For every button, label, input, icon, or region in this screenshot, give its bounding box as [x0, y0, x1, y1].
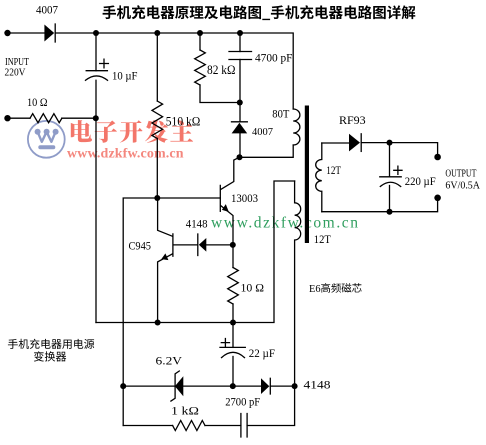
label converter line1 — [8, 339, 94, 349]
wire — [8, 32, 45, 34]
diode D3 4148 — [197, 234, 199, 256]
svg-text:220V: 220V — [5, 67, 26, 79]
svg-text:80T: 80T — [272, 108, 289, 120]
winding 12T secondary — [316, 143, 322, 212]
diode D1 4007 — [44, 25, 54, 42]
wire — [239, 33, 241, 52]
wire — [232, 245, 234, 268]
node sec-top — [387, 140, 393, 146]
wire — [156, 139, 158, 199]
transistor Q2 emitter — [158, 254, 173, 323]
resistor R4 10 ohm — [228, 268, 239, 305]
wire — [239, 103, 241, 122]
wire — [62, 117, 96, 119]
diode D5 4148 — [261, 378, 269, 394]
svg-text:12T: 12T — [314, 234, 331, 246]
winding 80T — [293, 109, 300, 145]
svg-text:4007: 4007 — [252, 126, 273, 138]
svg-text:E6: E6 — [309, 283, 321, 295]
title text — [103, 5, 416, 20]
node r4-rail — [230, 320, 236, 326]
transistor Q2 base bar — [172, 234, 174, 256]
wire — [95, 33, 97, 71]
node c945-emitter-rail — [155, 320, 161, 326]
wire — [183, 385, 261, 387]
node input-cap — [93, 115, 99, 121]
watermark logo circle — [28, 121, 65, 158]
transistor Q2 C945 collector — [158, 198, 173, 236]
capacitor C3 22uF — [220, 346, 245, 348]
wire — [389, 186, 391, 212]
node 22uF-zener — [230, 383, 236, 389]
label converter line2 — [34, 351, 66, 361]
wire — [232, 304, 234, 323]
resistor R5 1k — [173, 421, 205, 431]
svg-text:4148: 4148 — [186, 218, 208, 230]
wire — [123, 425, 172, 427]
svg-text:22 µF: 22 µF — [249, 346, 276, 360]
winding 12T feedback — [295, 181, 301, 386]
wire — [123, 385, 175, 387]
node top1 — [93, 30, 99, 36]
svg-text:6V/0.5A: 6V/0.5A — [445, 180, 480, 192]
wire — [206, 244, 233, 246]
wire top rail — [55, 33, 293, 109]
watermark logo W — [38, 132, 56, 142]
wire — [156, 33, 158, 101]
svg-text:C945: C945 — [129, 240, 152, 252]
diode D6 RF93 — [349, 134, 360, 152]
svg-text:1 kΩ: 1 kΩ — [171, 405, 199, 417]
wire bottom loop — [247, 386, 295, 425]
terminal input bottom — [4, 115, 10, 121]
transistor Q2 emitter arrow — [161, 253, 168, 260]
node emitter-diode — [230, 242, 236, 248]
svg-text:10 Ω: 10 Ω — [27, 97, 48, 109]
transformer core — [305, 106, 309, 244]
node top4 — [237, 30, 243, 36]
wire — [95, 80, 97, 322]
transistor Q1 emitter arrow — [222, 204, 229, 212]
svg-text:10 Ω: 10 Ω — [241, 281, 265, 295]
node fb-zener — [292, 383, 298, 389]
node collector — [237, 154, 243, 160]
wire — [239, 60, 241, 103]
node base-510k — [154, 195, 160, 201]
wire emitter rail — [96, 181, 295, 323]
wire — [232, 323, 234, 348]
wire — [8, 117, 31, 119]
wire — [174, 244, 198, 246]
svg-text:OUTPUT: OUTPUT — [445, 167, 476, 179]
wire — [361, 143, 437, 157]
wire — [232, 357, 234, 387]
watermark red text 电子开发主 — [71, 120, 193, 143]
svg-text:4148: 4148 — [304, 379, 331, 391]
node sec-bottom — [387, 209, 393, 215]
svg-text:13003: 13003 — [231, 193, 258, 205]
svg-text:4007: 4007 — [36, 5, 58, 17]
resistor R2 510k — [152, 101, 163, 139]
terminal output minus — [434, 195, 441, 202]
capacitor C4 2700pF — [241, 414, 247, 438]
capacitor C1 10uF — [86, 70, 107, 72]
svg-text:82 kΩ: 82 kΩ — [207, 63, 236, 77]
wire — [205, 425, 241, 427]
resistor R1 10 ohm — [30, 114, 62, 123]
svg-text:510 kΩ: 510 kΩ — [166, 114, 201, 128]
capacitor C2 4700pF — [229, 52, 252, 60]
transistor Q1 base bar — [219, 185, 221, 211]
svg-text:4700 pF: 4700 pF — [255, 51, 293, 65]
transistor Q1 13003 collector — [221, 157, 240, 189]
node left-rail-zener — [120, 383, 126, 389]
svg-text:6.2V: 6.2V — [156, 355, 183, 367]
svg-text:www.dzkfw.com.cn: www.dzkfw.com.cn — [67, 147, 184, 162]
wire — [240, 145, 294, 157]
wire — [200, 85, 240, 103]
svg-text:220 µF: 220 µF — [405, 174, 436, 188]
wire base rail — [123, 198, 220, 426]
svg-text:2700 pF: 2700 pF — [225, 396, 260, 408]
wire sec bottom — [322, 198, 438, 212]
node 82k-4700 — [237, 100, 243, 106]
terminal output plus — [434, 154, 441, 161]
wire — [239, 133, 241, 157]
capacitor C5 220uF — [380, 176, 401, 178]
node top3 — [197, 30, 203, 36]
transistor Q1 emitter — [221, 206, 233, 242]
resistor R3 82k — [195, 50, 206, 85]
wire — [270, 385, 294, 387]
wire — [322, 142, 349, 144]
wire — [389, 143, 391, 177]
svg-text:10 µF: 10 µF — [112, 69, 138, 83]
svg-text:RF93: RF93 — [339, 113, 366, 127]
terminal input top — [4, 30, 10, 36]
svg-text:12T: 12T — [326, 165, 341, 177]
zener D4 6.2V — [175, 376, 183, 396]
wire — [199, 33, 201, 50]
node top2 — [154, 30, 160, 36]
diode D2 4007 — [232, 121, 248, 123]
